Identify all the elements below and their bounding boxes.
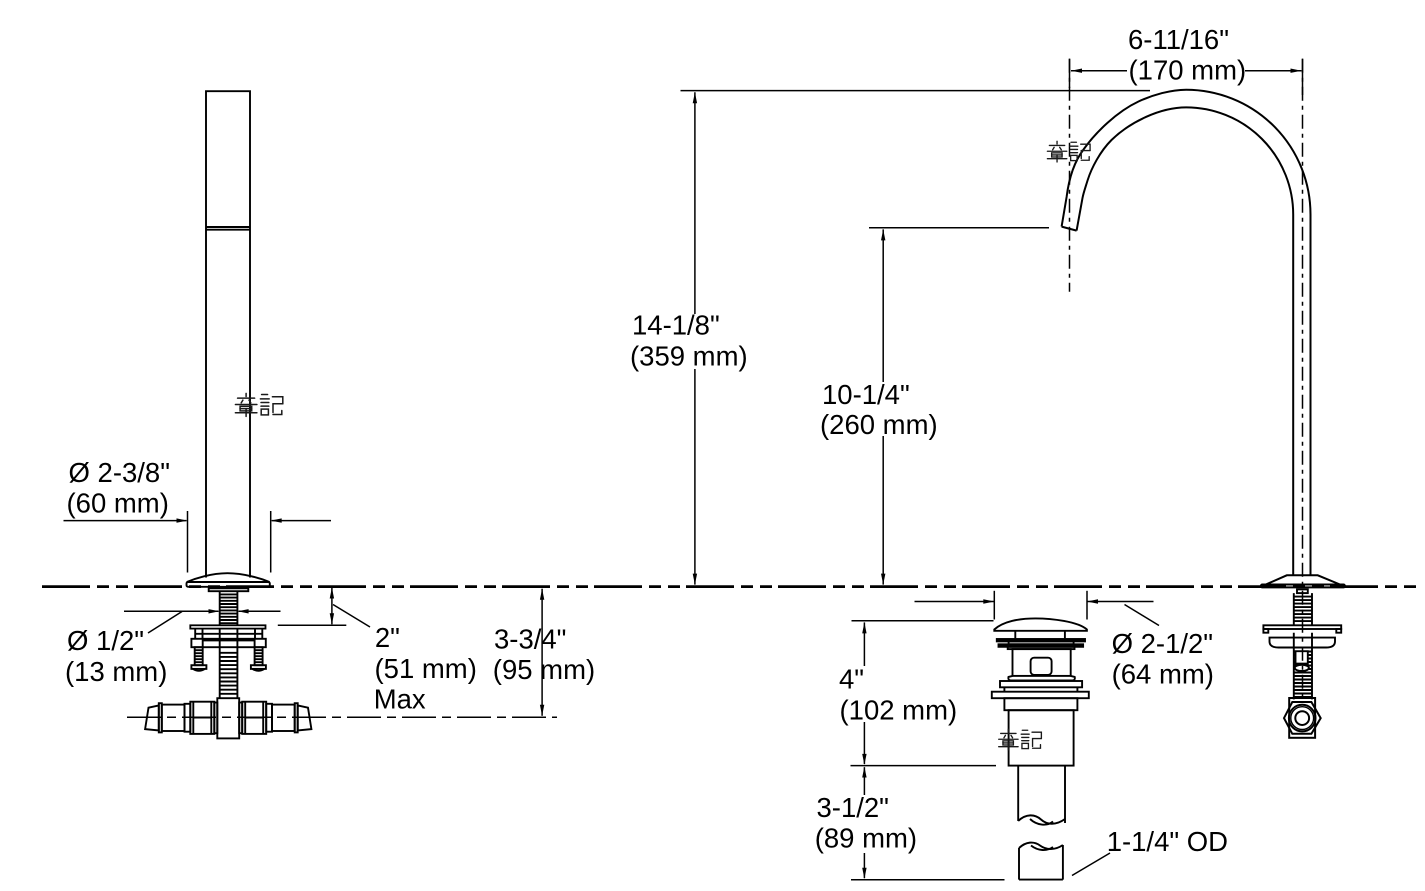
right arm: pipe: [272, 705, 295, 731]
svg-text:Ø 1/2": Ø 1/2": [67, 625, 144, 656]
washers: [997, 639, 1085, 641]
svg-text:(95 mm): (95 mm): [493, 654, 595, 685]
arrowhead dia 2-3/8 left: [177, 518, 188, 522]
svg-text:Ø 2-1/2": Ø 2-1/2": [1112, 628, 1213, 659]
base flange dome: [187, 573, 270, 582]
svg-text:2": 2": [375, 622, 400, 653]
svg-text:(89 mm): (89 mm): [815, 823, 917, 854]
arrowhead 3-3/4 bottom: [540, 705, 544, 716]
arrowhead dia 2-1/2 right: [1087, 599, 1098, 603]
leader dia 1/2: [148, 612, 182, 634]
sub plate under counter: [209, 588, 249, 591]
dim line 6-11/16 left segment: [1071, 70, 1127, 72]
shank sleeve: [1296, 651, 1308, 663]
left arm: spacer: [214, 703, 217, 734]
svg-text:1-1/4" OD: 1-1/4" OD: [1107, 826, 1228, 857]
base flange plate: [187, 582, 270, 587]
centerlines: [1069, 59, 1071, 292]
spout inner edge / riser left: [1077, 107, 1294, 574]
arrowhead 4in bottom: [862, 754, 866, 765]
arrowhead dia 1/2 right: [238, 609, 249, 613]
svg-text:(64 mm): (64 mm): [1112, 659, 1214, 690]
dim line dia 1/2 left segment: [124, 610, 219, 612]
supply stop hexagon: [1284, 702, 1321, 734]
clamp bar: [191, 639, 265, 647]
dim line dia 2-1/2 left segment: [915, 601, 995, 603]
extension tick flange right edge: [270, 511, 272, 573]
right bolt: [255, 647, 263, 665]
arrowhead 14-1/8 bottom: [693, 574, 697, 585]
watermark at spout: [1047, 141, 1090, 162]
arrowhead 6-11/16 left: [1071, 69, 1082, 73]
svg-text:(13 mm): (13 mm): [65, 656, 167, 687]
dim line 10-1/4 upper segment: [882, 229, 884, 382]
dim line 14-1/8 upper segment: [694, 92, 696, 314]
extension line dia 2-1/2 left: [993, 591, 995, 620]
dome: [994, 618, 1087, 630]
overflow hole: [1031, 658, 1052, 675]
dim line dia 1/2 right segment: [239, 610, 281, 612]
left bolt: [195, 647, 203, 665]
arrowhead dia 2-1/2 left: [983, 599, 994, 603]
left arm: end ring: [159, 703, 162, 732]
extension line dia 2-1/2 right: [1086, 591, 1088, 620]
handle column: [206, 91, 250, 577]
bracket: [195, 629, 262, 639]
lip: [1008, 676, 1075, 681]
svg-text:(60 mm): (60 mm): [67, 487, 169, 518]
tail pipe upper: [1018, 766, 1065, 823]
spout outer edge: [1062, 90, 1311, 575]
dim line 3-1/2 lower segment: [863, 853, 865, 878]
supply arm centerline: [127, 716, 557, 718]
svg-text:6-11/16": 6-11/16": [1128, 24, 1229, 55]
dim line dia 2-3/8 left segment: [64, 520, 187, 522]
spout tip cut: [1062, 227, 1077, 231]
arrowhead 6-11/16 right: [1291, 69, 1302, 73]
dim line 3-3/4 vertical: [541, 589, 543, 716]
arrowhead 2in bottom: [330, 613, 334, 624]
right arm: end cap: [298, 705, 312, 730]
arrowhead 4in top: [862, 622, 866, 633]
extension line 3-1/2 bottom: [851, 879, 1005, 881]
extension line 14-1/8 top: [681, 90, 1151, 92]
arrowhead 3-3/4 top: [540, 589, 544, 600]
arrowhead 3-1/2 top: [862, 767, 866, 778]
dim line 6-11/16 right segment: [1245, 70, 1302, 72]
arrowhead 10-1/4 bottom: [881, 574, 885, 585]
right arm: end ring: [295, 703, 298, 732]
right flange: [1266, 575, 1340, 584]
arrowhead dia 2-3/8 right: [271, 518, 282, 522]
right arm: ring: [266, 704, 272, 732]
extension tick flange left edge: [187, 511, 189, 573]
column divider: [206, 226, 250, 228]
extension line 4in bottom / 3-1/2 top: [851, 765, 997, 767]
svg-text:Ø 2-3/8": Ø 2-3/8": [69, 457, 170, 488]
body: [1013, 649, 1071, 676]
plate 1: [1000, 681, 1082, 687]
countertop dash-dot line: [42, 585, 1421, 588]
stem: [1015, 631, 1065, 639]
dim line 4in lower segment: [863, 722, 865, 764]
left arm: pipe: [162, 705, 185, 731]
arrowhead 10-1/4 top: [881, 229, 885, 240]
dim line 3-1/2 upper segment: [863, 767, 865, 795]
svg-text:3-3/4": 3-3/4": [494, 624, 566, 655]
svg-text:14-1/8": 14-1/8": [632, 310, 720, 341]
dim line 2in vertical: [331, 588, 333, 625]
arrowhead 3-1/2 bottom: [862, 868, 866, 879]
svg-text:(51 mm): (51 mm): [375, 653, 477, 684]
leader 2in: [333, 605, 370, 628]
watermark at drain: [999, 729, 1042, 750]
extension line 10-1/4 top: [869, 227, 1049, 229]
right faucet below counter shank: [1263, 589, 1341, 737]
svg-text:3-1/2": 3-1/2": [817, 792, 889, 823]
dim line 4in upper segment: [863, 622, 865, 666]
svg-text:(359 mm): (359 mm): [630, 340, 748, 371]
arrowhead 2in top: [330, 588, 334, 599]
neck: [1004, 698, 1077, 710]
dim line 14-1/8 lower segment: [694, 369, 696, 585]
lower central threaded shaft: [220, 629, 238, 699]
svg-text:(102 mm): (102 mm): [840, 695, 958, 726]
right arm: spacer: [239, 703, 242, 734]
supply stop square: [1289, 698, 1315, 738]
shank o-ring: [1295, 665, 1309, 671]
left arm: hex nut: [190, 702, 214, 734]
svg-text:Max: Max: [374, 683, 426, 714]
lower body: [1009, 710, 1074, 765]
dim line dia 2-1/2 right segment: [1087, 601, 1154, 603]
T valve block: [217, 698, 239, 738]
mounting plate: [190, 625, 265, 628]
dim line dia 2-3/8 right segment: [272, 520, 331, 522]
extension line 4in top: [852, 620, 994, 622]
left arm: ring: [185, 704, 191, 732]
svg-text:4": 4": [839, 664, 864, 695]
left arm: end cap: [145, 705, 159, 730]
upper threaded shank: [220, 591, 238, 625]
arrowhead dia 1/2 left: [209, 609, 220, 613]
plate 2: [992, 692, 1089, 699]
leader dia 2-1/2: [1125, 605, 1160, 626]
extension line 2in bottom: [278, 624, 347, 626]
svg-text:10-1/4": 10-1/4": [822, 379, 910, 410]
svg-text:(170 mm): (170 mm): [1129, 55, 1247, 86]
dim line 10-1/4 lower segment: [882, 436, 884, 585]
arrowhead 14-1/8 top: [693, 92, 697, 103]
right arm: hex nut: [242, 702, 266, 734]
tail pipe lower: [1019, 845, 1063, 880]
svg-text:(260 mm): (260 mm): [820, 409, 938, 440]
watermark 章記 on left column: [235, 393, 282, 416]
leader 1-1/4 OD: [1072, 853, 1110, 876]
